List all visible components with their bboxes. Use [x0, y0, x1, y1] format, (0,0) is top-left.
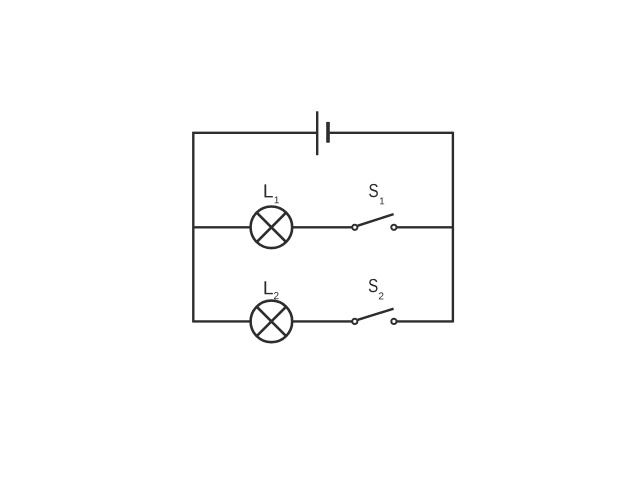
label L2 subscript 2 — [274, 292, 279, 299]
label S2 subscript 2 — [379, 292, 384, 299]
wire: left vertical side — [192, 132, 194, 323]
switch S1 left contact — [352, 225, 357, 230]
label L2 — [264, 281, 272, 294]
lamp L1 cross stroke 1 — [257, 213, 286, 242]
lamp L2 cross stroke 2 — [257, 307, 286, 336]
lamp L1 circle — [251, 207, 293, 249]
battery B1 long plate (positive) — [316, 111, 318, 155]
label S2 — [369, 279, 378, 292]
wire: bottom branch, lamp L2 to switch S2 — [293, 320, 352, 322]
wire: top-right horizontal segment from battery to right corner — [330, 132, 453, 134]
wire: bottom branch, left corner to lamp L2 — [193, 320, 250, 322]
switch S2 blade (open) — [358, 309, 394, 320]
wire: top-left horizontal segment from left corner to battery — [193, 132, 316, 134]
wire: middle branch, switch S1 to right corner — [397, 226, 453, 228]
lamp L1 cross stroke 2 — [257, 213, 286, 242]
wire: bottom branch, switch S2 to right corner — [397, 320, 453, 322]
switch S1 right contact — [391, 225, 396, 230]
switch S2 right contact — [391, 319, 396, 324]
label L1 — [264, 184, 272, 197]
label L1 subscript 1 — [275, 196, 279, 203]
wire: right vertical side — [452, 132, 454, 323]
wire: middle branch, left corner to lamp L1 — [193, 226, 250, 228]
lamp L2 cross stroke 1 — [257, 307, 286, 336]
battery B1 short plate (negative) — [326, 122, 330, 143]
switch S1 blade (open) — [358, 214, 394, 226]
switch S2 left contact — [352, 319, 357, 324]
wire: middle branch, lamp L1 to switch S1 — [293, 226, 352, 228]
label S1 — [369, 184, 378, 197]
lamp L2 circle — [251, 301, 293, 343]
label S1 subscript 1 — [380, 198, 384, 205]
